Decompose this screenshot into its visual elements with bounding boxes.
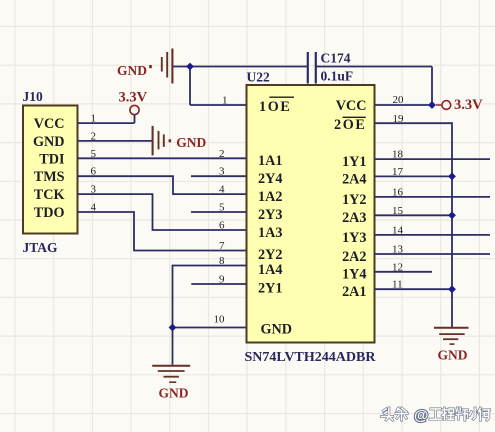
svg-text:3.3V: 3.3V: [454, 97, 483, 113]
svg-text:@: @: [414, 408, 428, 424]
svg-text:5: 5: [219, 202, 225, 214]
svg-text:1Y2: 1Y2: [342, 192, 366, 208]
svg-text:GND: GND: [33, 134, 65, 150]
svg-text:U22: U22: [247, 70, 270, 85]
svg-text:20: 20: [393, 94, 405, 106]
svg-text:TCK: TCK: [34, 187, 65, 203]
svg-text:1A1: 1A1: [258, 153, 282, 169]
svg-text:2OE: 2OE: [334, 117, 366, 133]
svg-text:2A4: 2A4: [342, 171, 366, 187]
svg-text:TDO: TDO: [34, 205, 65, 221]
svg-text:1Y4: 1Y4: [342, 267, 366, 283]
svg-text:GND: GND: [117, 63, 147, 78]
svg-text:1A3: 1A3: [258, 225, 282, 241]
svg-text:2Y1: 2Y1: [258, 280, 282, 296]
svg-text:1A2: 1A2: [258, 189, 282, 205]
svg-text:4: 4: [219, 184, 225, 196]
svg-text:3.3V: 3.3V: [119, 90, 148, 106]
svg-text:10: 10: [214, 314, 226, 326]
svg-text:VCC: VCC: [34, 116, 65, 132]
svg-text:2A1: 2A1: [342, 284, 366, 300]
svg-text:GND: GND: [261, 322, 293, 338]
svg-text:1Y3: 1Y3: [342, 230, 366, 246]
svg-text:C174: C174: [321, 51, 351, 66]
svg-text:SN74LVTH244ADBR: SN74LVTH244ADBR: [245, 350, 377, 365]
svg-text:TMS: TMS: [34, 169, 65, 185]
svg-text:2Y4: 2Y4: [258, 171, 282, 187]
svg-text:0.1uF: 0.1uF: [321, 69, 354, 84]
svg-text:2Y3: 2Y3: [258, 207, 282, 223]
svg-text:2A3: 2A3: [342, 210, 366, 226]
svg-text:7: 7: [219, 240, 225, 252]
svg-text:6: 6: [219, 220, 225, 232]
svg-text:1Y1: 1Y1: [342, 154, 366, 170]
svg-text:GND: GND: [438, 348, 468, 363]
svg-text:GND: GND: [176, 135, 206, 150]
svg-text:TDI: TDI: [39, 151, 65, 167]
svg-text:GND: GND: [159, 386, 189, 401]
svg-text:1: 1: [222, 95, 228, 107]
svg-text:1OE: 1OE: [259, 99, 291, 115]
svg-text:2: 2: [219, 148, 225, 160]
svg-text:1A4: 1A4: [258, 262, 282, 278]
svg-text:2Y2: 2Y2: [258, 247, 282, 263]
svg-text:VCC: VCC: [336, 98, 367, 114]
svg-text:2A2: 2A2: [342, 249, 366, 265]
svg-text:JTAG: JTAG: [23, 240, 59, 255]
svg-text:J10: J10: [23, 89, 44, 104]
svg-text:3: 3: [219, 166, 225, 178]
